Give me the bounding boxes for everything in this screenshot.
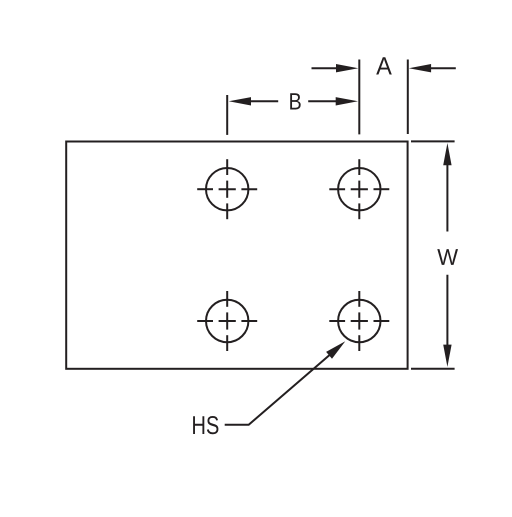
- leader line from HS to bottom-right hole: [225, 341, 346, 425]
- dimension B right arrow (points right): [308, 97, 358, 105]
- dimension A extension line (plate right edge x=407.8): [407, 60, 409, 135]
- label A: [376, 57, 392, 74]
- dimension W upper arrow (points up): [443, 143, 451, 232]
- label HS (hole size): [193, 416, 204, 434]
- mounting hole bottom-right with centerlines: [329, 291, 389, 351]
- mounting hole top-right with centerlines: [329, 159, 389, 219]
- dimension A extension line (hole column x=359.3): [358, 60, 360, 135]
- dimension W lower arrow (points down): [443, 275, 451, 367]
- mounting hole top-left with centerlines: [197, 159, 257, 219]
- dimension B extension line (hole column x=227.2): [226, 95, 228, 135]
- dimension B left arrow (points left): [229, 97, 279, 105]
- dimension W top extension line: [411, 140, 455, 142]
- plate outline: [66, 142, 407, 369]
- dimension W bottom extension line: [411, 368, 455, 370]
- mounting hole bottom-left with centerlines: [197, 291, 257, 351]
- label W: [437, 249, 458, 265]
- dimension A right arrow (points left): [409, 64, 456, 72]
- dimension A left arrow (points right): [312, 64, 359, 72]
- label B: [290, 93, 301, 109]
